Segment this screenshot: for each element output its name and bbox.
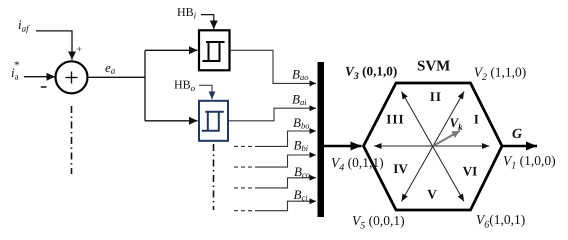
label sector II xyxy=(430,89,442,104)
wire G output arrow xyxy=(502,145,537,148)
wire e_a output xyxy=(88,76,146,78)
label sector IV xyxy=(393,161,408,176)
svg-text:IV: IV xyxy=(393,161,408,176)
summing junction xyxy=(56,61,88,93)
label B_ci xyxy=(294,187,309,203)
svg-text:II: II xyxy=(430,89,442,104)
label i_af xyxy=(18,17,30,34)
label G xyxy=(512,127,522,142)
wire HB_i label to block xyxy=(201,15,214,29)
svg-text:VI: VI xyxy=(463,164,478,179)
hysteresis block HB_o xyxy=(199,101,228,141)
wire HB_o label to block xyxy=(199,85,212,99)
label B_bo xyxy=(293,115,309,131)
label V1 vertex xyxy=(503,153,556,172)
axis V5-V2 double arrow xyxy=(401,92,464,202)
svg-text:V: V xyxy=(427,187,437,202)
wire B_ao from HB_i to bus xyxy=(230,50,317,83)
label V_k xyxy=(450,115,464,132)
wire to HB_o block input xyxy=(145,120,198,122)
label V5 vertex xyxy=(352,213,405,232)
label V6 vertex xyxy=(476,212,525,231)
bus bar xyxy=(318,62,325,217)
wire B_ci dashed stub to bus xyxy=(234,201,316,211)
label i_a* xyxy=(11,60,20,82)
svg-text:G: G xyxy=(512,127,522,142)
label B_ao xyxy=(292,67,308,83)
hysteresis block HB_i xyxy=(199,30,230,70)
dash-dot continuation below summing junction xyxy=(71,106,73,174)
wire i_af to summing junction xyxy=(36,31,72,60)
label sector I xyxy=(474,111,479,126)
wire i_a* to summing junction xyxy=(24,76,55,78)
wire B_ai from HB_o to bus xyxy=(228,108,316,121)
label V3 vertex xyxy=(345,63,397,82)
axis V3-V6 double arrow xyxy=(401,92,464,202)
axis V4-V1 double arrow xyxy=(374,145,490,147)
wire B_co dashed stub to bus xyxy=(234,178,316,188)
wire branch vertical xyxy=(144,50,146,121)
wire to HB_i block input xyxy=(145,49,198,51)
label SVM xyxy=(417,59,450,75)
label B_co xyxy=(294,164,310,180)
svg-text:I: I xyxy=(474,111,479,126)
svg-text:+: + xyxy=(76,44,82,55)
svg-text:III: III xyxy=(386,111,404,126)
wire B_bi dashed stub to bus xyxy=(234,155,316,167)
label sector III xyxy=(386,111,404,126)
label minus sign (left input) xyxy=(41,86,47,88)
vector V_k arrow xyxy=(434,131,461,146)
label V4 vertex xyxy=(331,155,384,174)
dash-dot continuation below HB_o block xyxy=(213,144,215,210)
label sector V xyxy=(427,187,437,202)
wire B_bo dashed stub to bus xyxy=(234,131,316,146)
label sector VI xyxy=(463,164,478,179)
label HB_i xyxy=(177,5,197,21)
label plus sign (top input) xyxy=(76,44,82,55)
label HB_o xyxy=(174,78,196,94)
wire bus to hexagon V4 vertex xyxy=(324,145,362,148)
label e_a xyxy=(105,60,116,76)
svg-text:SVM: SVM xyxy=(417,59,450,75)
label B_bi xyxy=(294,138,309,154)
label V2 vertex xyxy=(474,65,527,84)
hexagon SVM diagram xyxy=(364,83,503,210)
label B_ai xyxy=(292,92,307,108)
